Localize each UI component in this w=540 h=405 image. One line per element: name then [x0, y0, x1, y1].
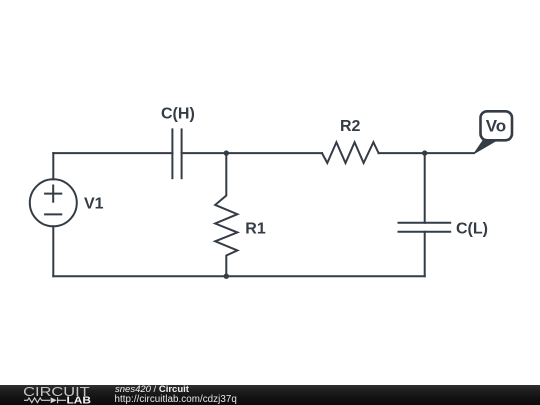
svg-text:Vo: Vo	[486, 117, 506, 136]
svg-text:C(H): C(H)	[161, 106, 195, 123]
wire C(L) top lead	[424, 153, 426, 223]
capacitor C(L)	[399, 223, 451, 232]
svg-text:C(L): C(L)	[456, 221, 488, 238]
wire top-left horizontal from V1 to C(H)	[53, 152, 172, 154]
node junction dot at R1/bottom wire	[224, 274, 229, 279]
node flag Vo	[474, 111, 512, 153]
CircuitLab logo	[0, 384, 100, 405]
node junction dot at R2/C(L)/Vo	[422, 150, 427, 155]
credit text line 1	[115, 385, 189, 395]
footer bar	[0, 385, 540, 405]
wire V1 top lead	[52, 153, 54, 179]
capacitor C(H)	[172, 129, 181, 178]
wire V1 bottom lead	[52, 226, 54, 276]
voltage source V1	[30, 179, 77, 226]
resistor R2	[322, 142, 379, 163]
svg-text:R2: R2	[340, 118, 361, 135]
wire R2 to node	[379, 152, 425, 154]
svg-text:R1: R1	[245, 221, 266, 238]
wire bottom horizontal	[53, 275, 424, 277]
resistor R1	[215, 153, 237, 276]
wire C(H) to R2	[182, 152, 322, 154]
wire node to Vo flag	[425, 152, 474, 154]
svg-text:V1: V1	[84, 196, 104, 213]
svg-text:LAB: LAB	[67, 396, 92, 405]
credit text line 2	[115, 395, 237, 405]
wire C(L) bottom lead	[424, 232, 426, 276]
node junction dot at C(H)/R1/R2	[224, 150, 229, 155]
